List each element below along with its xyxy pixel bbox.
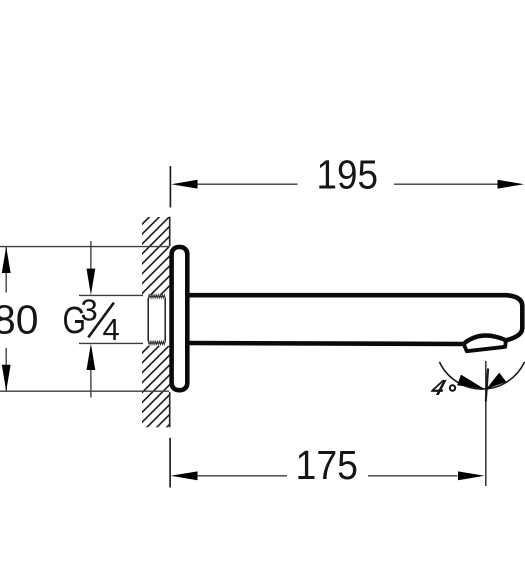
svg-text:175: 175 — [296, 442, 359, 488]
svg-text:4: 4 — [103, 312, 120, 347]
svg-text:4: 4 — [427, 376, 449, 400]
svg-text:80: 80 — [0, 297, 39, 343]
svg-text:3: 3 — [81, 293, 98, 328]
svg-text:195: 195 — [317, 152, 379, 198]
